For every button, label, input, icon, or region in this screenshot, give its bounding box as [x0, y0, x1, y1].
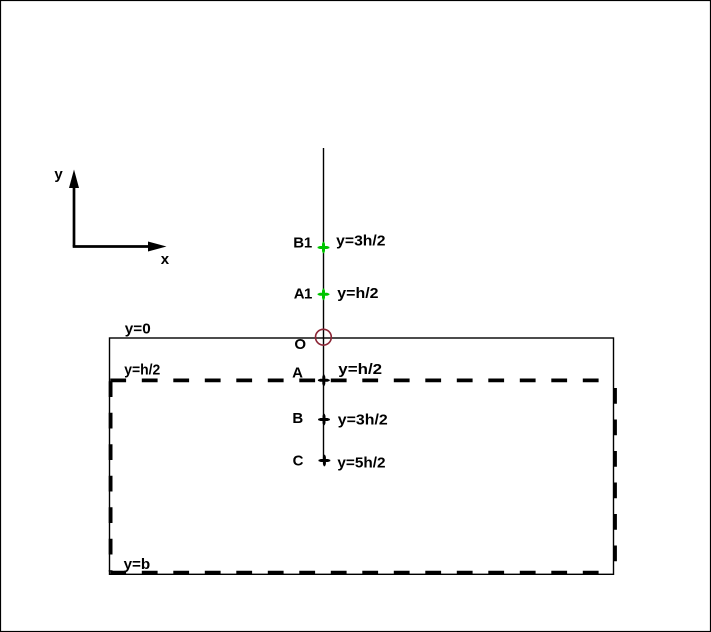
- point marker A1 (green star): [318, 289, 330, 301]
- point marker C (black star): [319, 455, 331, 467]
- vertical line: [323, 148, 325, 461]
- svg-text:y=b: y=b: [124, 556, 151, 573]
- svg-text:C: C: [293, 453, 304, 470]
- point marker A (black star): [318, 375, 330, 387]
- svg-text:A: A: [292, 365, 303, 382]
- svg-text:B1: B1: [293, 235, 312, 252]
- svg-text:B: B: [292, 410, 303, 427]
- svg-text:y=h/2: y=h/2: [124, 362, 160, 378]
- point marker B (black star): [318, 414, 330, 426]
- dashed line y=h/2 (top edge of dashed rect): [110, 378, 605, 382]
- svg-text:x: x: [161, 251, 170, 268]
- svg-text:y: y: [54, 166, 63, 183]
- svg-text:y=3h/2: y=3h/2: [338, 413, 388, 429]
- y-axis shaft: [73, 186, 76, 247]
- svg-text:y=5h/2: y=5h/2: [337, 455, 385, 471]
- point marker B1 (green star): [318, 242, 330, 254]
- svg-text:y=0: y=0: [125, 322, 151, 338]
- dashed right edge: [613, 388, 617, 564]
- plate rectangle (thin solid): [110, 338, 614, 574]
- svg-text:y=h/2: y=h/2: [337, 286, 378, 302]
- dashed bottom edge y=b: [110, 571, 607, 575]
- x-axis arrowhead: [148, 242, 167, 252]
- y-axis arrowhead: [69, 170, 79, 189]
- svg-text:O: O: [294, 336, 306, 353]
- svg-text:y=3h/2: y=3h/2: [336, 234, 385, 250]
- svg-text:y=h/2: y=h/2: [338, 362, 382, 378]
- x-axis shaft: [73, 245, 150, 248]
- dashed left edge: [109, 381, 113, 571]
- svg-text:A1: A1: [294, 286, 313, 303]
- origin circle O (dark red): [316, 329, 332, 345]
